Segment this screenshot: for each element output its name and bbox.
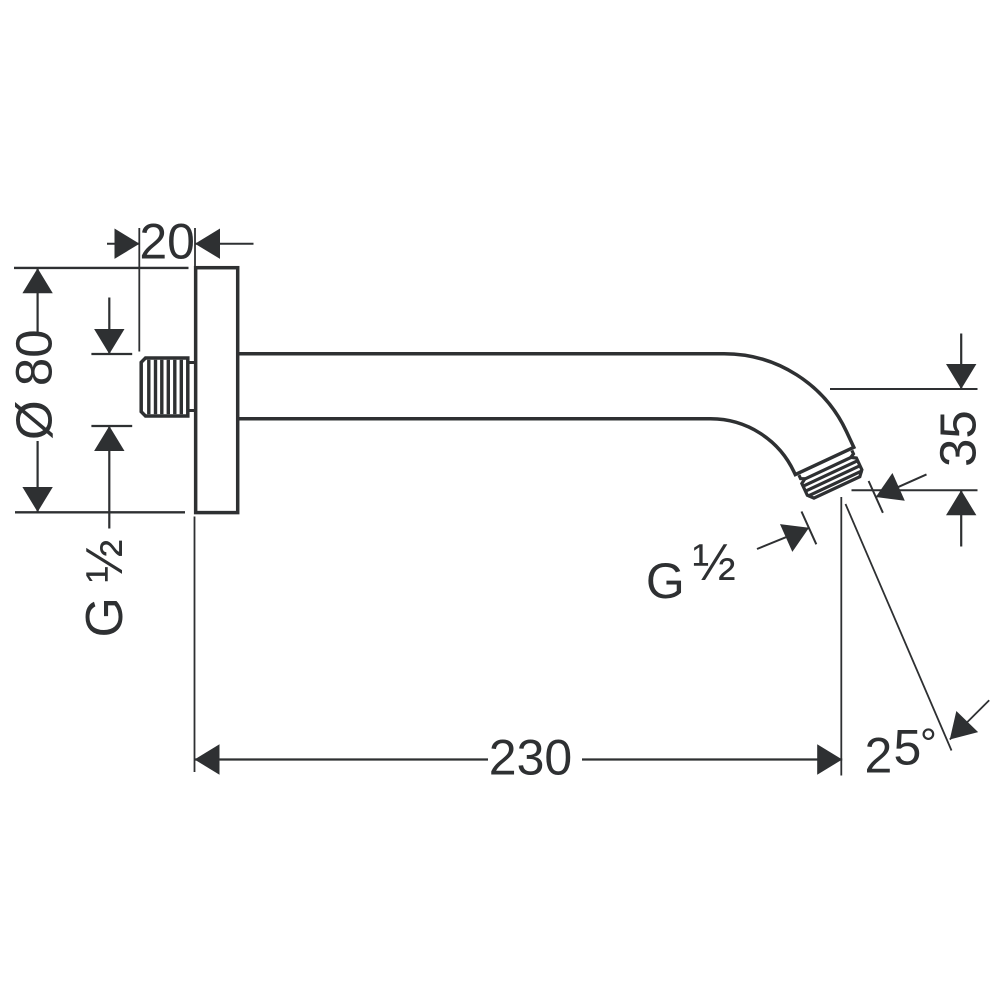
svg-text:Ø 80: Ø 80 <box>6 329 63 440</box>
svg-text:5: 5 <box>894 720 922 776</box>
svg-text:G ½: G ½ <box>76 539 134 637</box>
svg-text:°: ° <box>920 720 937 767</box>
svg-text:35: 35 <box>930 410 987 467</box>
svg-text:G: G <box>646 553 685 609</box>
svg-text:2: 2 <box>865 728 893 784</box>
svg-text:20: 20 <box>139 214 195 270</box>
svg-text:½: ½ <box>693 534 736 592</box>
svg-text:230: 230 <box>489 730 572 786</box>
